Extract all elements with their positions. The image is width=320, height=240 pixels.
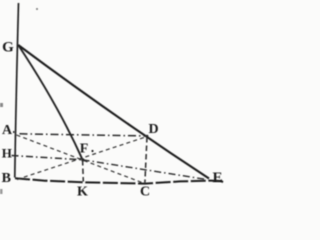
node F junction bbox=[81, 158, 84, 161]
svg-text:E: E bbox=[212, 170, 222, 186]
node D junction bbox=[146, 135, 149, 138]
background paper bbox=[0, 0, 228, 197]
wire dotted B-F-D bbox=[17, 137, 147, 180]
svg-text:H: H bbox=[2, 145, 12, 160]
label A dot bbox=[13, 131, 15, 133]
svg-text:K: K bbox=[77, 184, 88, 197]
speck top bbox=[36, 8, 38, 10]
wire hypotenuse G-D-E bbox=[18, 45, 209, 179]
speck bottom left bbox=[0, 189, 3, 194]
wire dashed A-D bbox=[20, 134, 148, 136]
wire dashed vertical F-K bbox=[82, 160, 85, 182]
wire G-F bbox=[18, 45, 82, 160]
label F period bbox=[91, 150, 93, 152]
svg-text:B: B bbox=[2, 171, 11, 186]
svg-text:F: F bbox=[80, 142, 89, 157]
wire dash-dot H-F bbox=[12, 156, 83, 160]
speck left edge bbox=[0, 103, 3, 107]
wire dashed vertical D-C bbox=[145, 137, 147, 183]
wire dotted A-F-C bbox=[17, 135, 145, 184]
wire dash-dot F-E bbox=[83, 160, 207, 180]
wire bottom line B-K-C-E bbox=[15, 178, 225, 183]
wire vertical axis G-B bbox=[15, 3, 19, 178]
svg-text:C: C bbox=[140, 184, 150, 197]
svg-text:G: G bbox=[2, 40, 14, 56]
svg-text:A: A bbox=[2, 123, 13, 138]
svg-text:D: D bbox=[148, 122, 158, 137]
